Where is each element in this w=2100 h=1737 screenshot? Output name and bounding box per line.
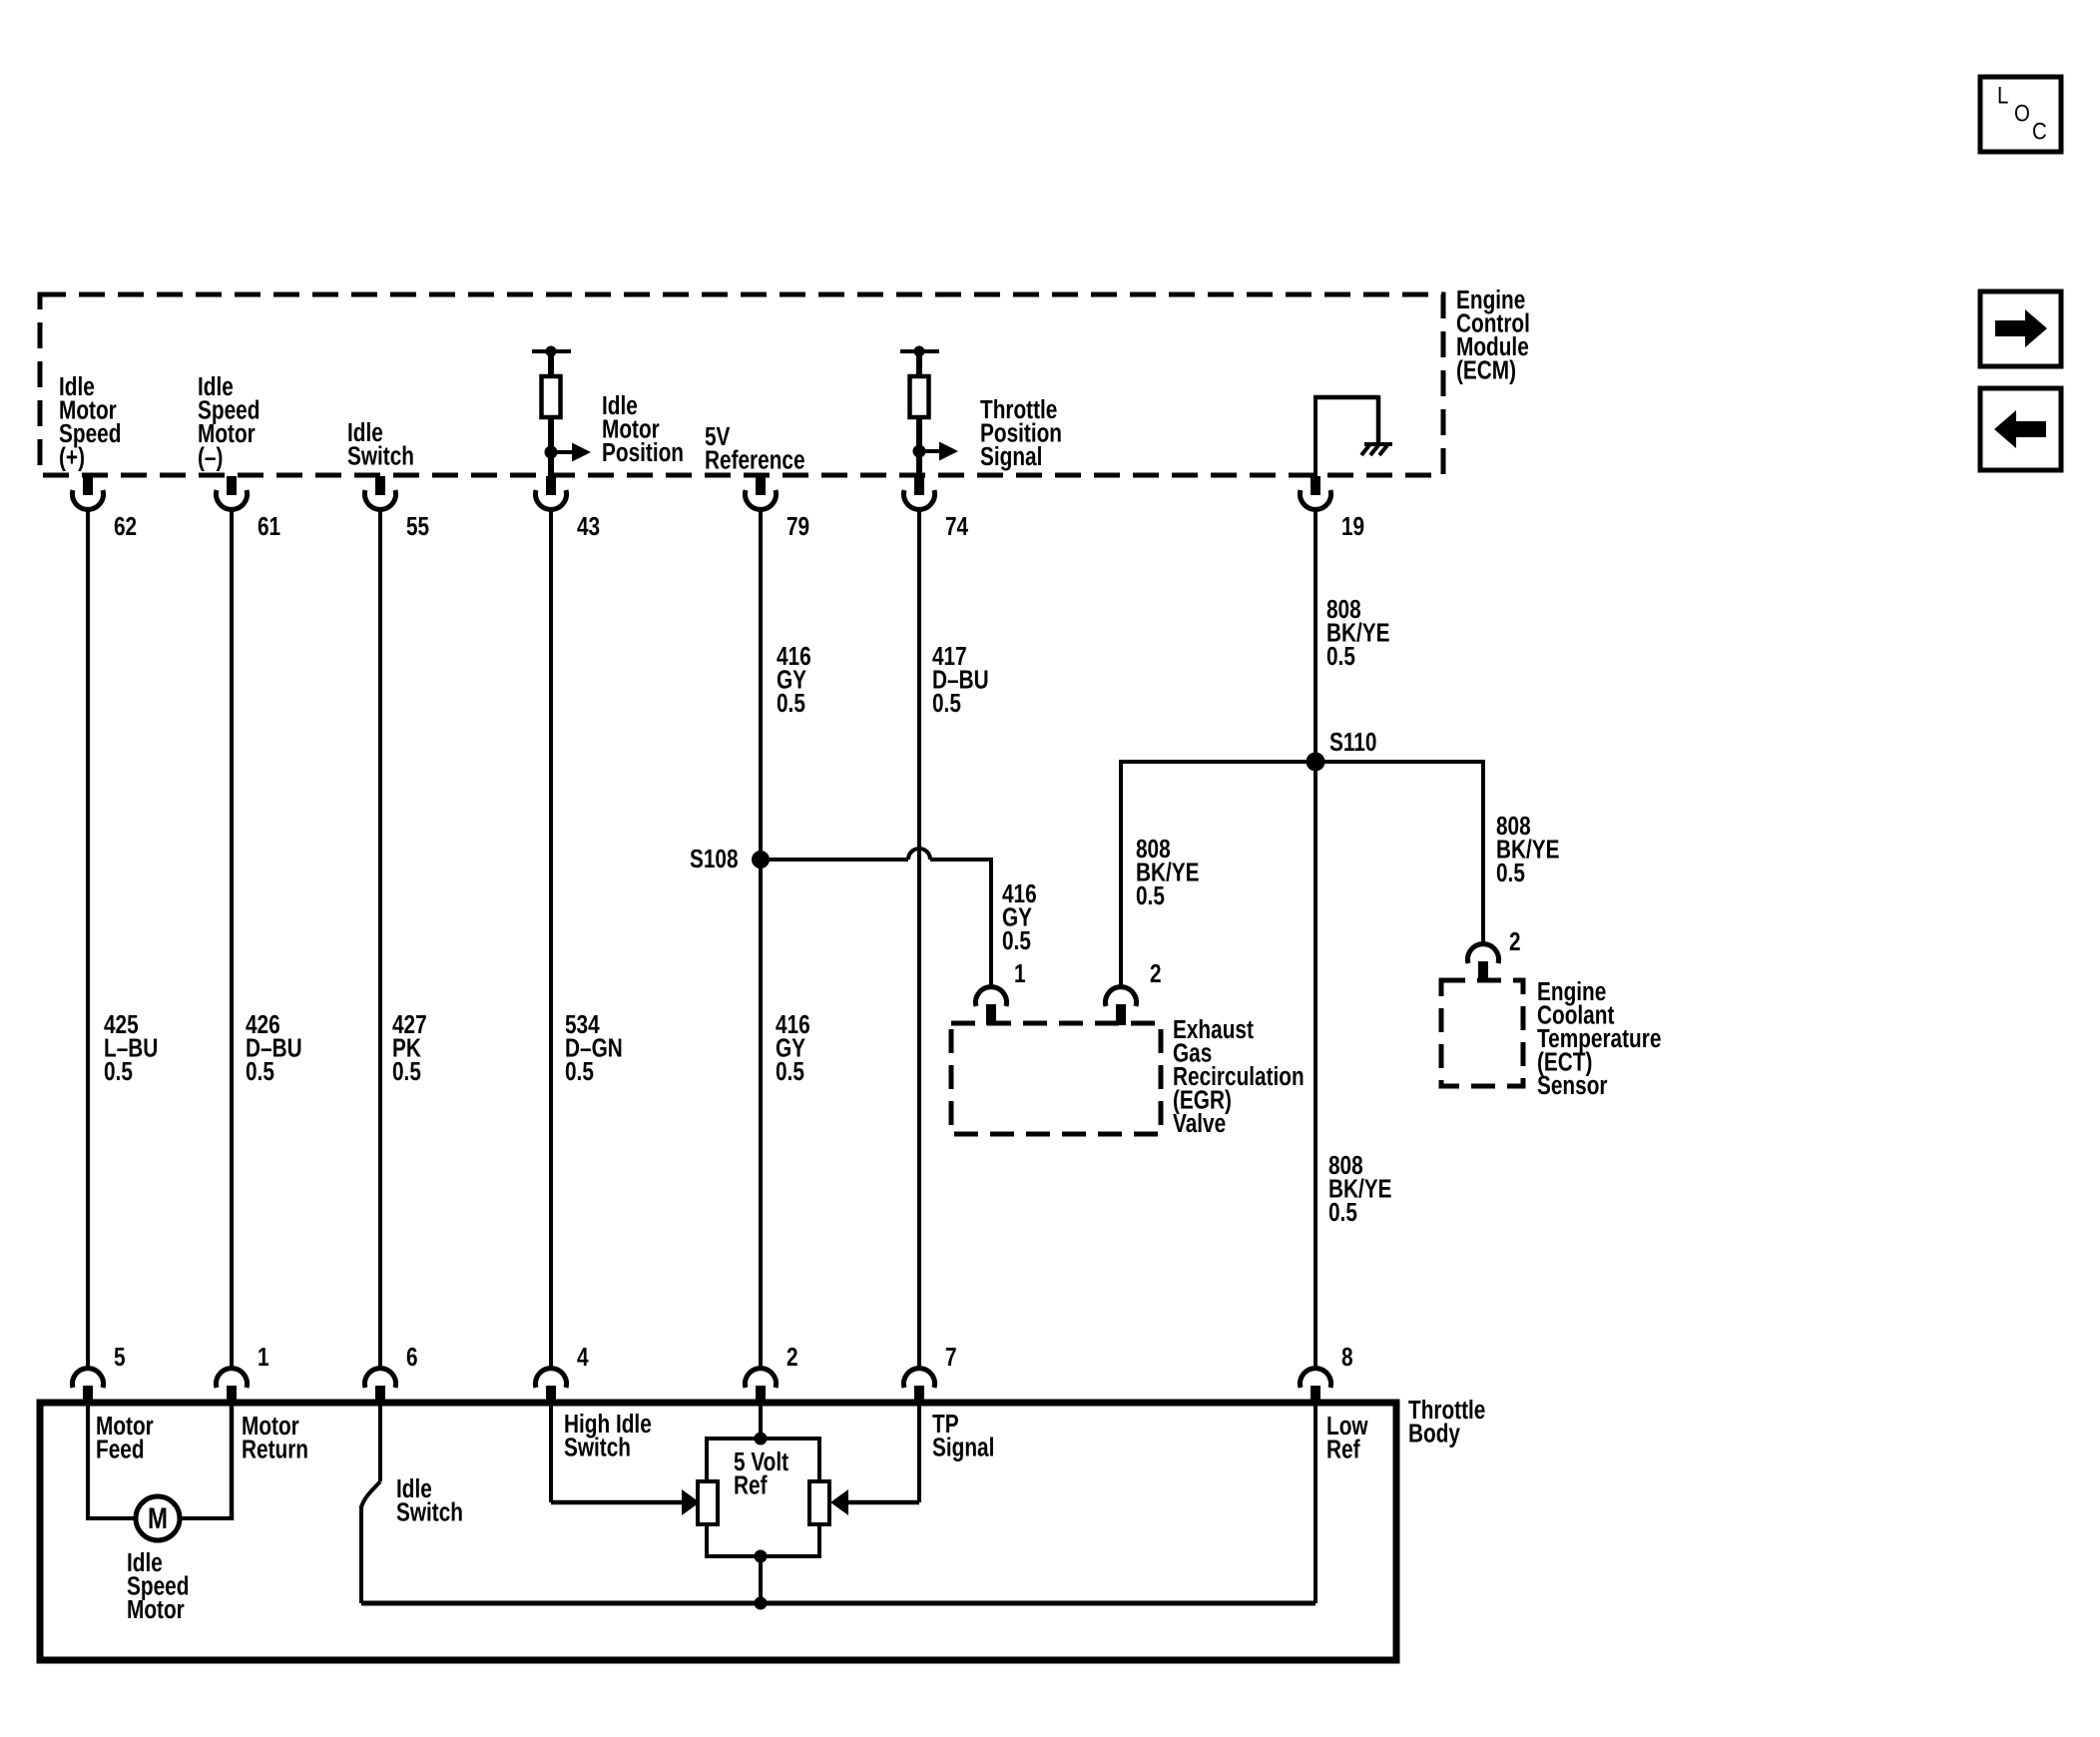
- wire S108 branch continues: [930, 858, 989, 862]
- svg-text:1: 1: [1014, 959, 1026, 988]
- EGR valve connector pin 2: [1106, 987, 1137, 1006]
- throttle body connector pin 1 (Motor Return): [216, 1369, 247, 1388]
- throttle body connector pin 6 (Idle Switch): [365, 1369, 396, 1388]
- svg-text:0.5: 0.5: [1326, 642, 1355, 671]
- left-arrow nav box: [1980, 388, 2061, 470]
- svg-text:Ref: Ref: [734, 1470, 768, 1499]
- TP signal wiper feed: [847, 1500, 919, 1505]
- ECM dashed box: [40, 294, 1443, 475]
- svg-text:(–): (–): [198, 442, 223, 471]
- svg-text:C: C: [2032, 118, 2047, 145]
- EGR valve connector pin 1: [976, 987, 1007, 1006]
- svg-text:0.5: 0.5: [1136, 881, 1165, 910]
- svg-text:0.5: 0.5: [246, 1057, 274, 1086]
- svg-text:0.5: 0.5: [565, 1057, 594, 1086]
- svg-text:43: 43: [577, 512, 600, 541]
- svg-text:Motor: Motor: [127, 1595, 185, 1624]
- svg-text:5: 5: [114, 1343, 126, 1372]
- ECM connector pin 43 (Idle Motor Position): [546, 476, 556, 495]
- junction top of 5 Volt Ref: [755, 1433, 768, 1446]
- wire pin 2 into 5 Volt Ref: [759, 1406, 763, 1439]
- wire pin 4 (High Idle Switch): [549, 1406, 553, 1502]
- svg-text:1: 1: [258, 1343, 269, 1372]
- svg-text:2: 2: [1509, 927, 1521, 956]
- internal pull-up resistor (Throttle Position Signal): [900, 349, 939, 353]
- svg-text:55: 55: [406, 512, 429, 541]
- ECM connector pin 55 (Idle Switch): [375, 476, 385, 495]
- wire 426 D-BU (pin 61 to Motor Return pin 1): [230, 507, 234, 1370]
- svg-text:Ref: Ref: [1326, 1435, 1360, 1463]
- wire 808 BK/YE drop to EGR pin 2: [1119, 760, 1123, 988]
- ECT sensor connector pin 2: [1468, 944, 1499, 963]
- internal pull-up resistor (Idle Motor Position): [532, 349, 571, 353]
- svg-text:M: M: [148, 1500, 168, 1534]
- low ref rail: [361, 1601, 1315, 1606]
- EGR valve dashed box: [951, 1023, 1161, 1134]
- throttle body connector pin 7 (TP Signal): [904, 1369, 935, 1388]
- ECM connector pin 19 (Low Reference): [1311, 476, 1320, 495]
- splice S108: [752, 851, 770, 868]
- svg-text:Signal: Signal: [980, 442, 1042, 471]
- wire pin 6 stub: [378, 1406, 382, 1481]
- svg-text:Return: Return: [242, 1435, 308, 1463]
- svg-text:0.5: 0.5: [776, 1057, 804, 1086]
- wire 534 D-GN (pin 43 to High Idle Switch pin 4): [549, 507, 553, 1370]
- wire motor to pin 1: [178, 1516, 232, 1520]
- junction to signal arrow: [913, 445, 926, 458]
- junction bottom of 5 Volt Ref: [755, 1550, 768, 1563]
- svg-text:Body: Body: [1408, 1419, 1460, 1447]
- ECM connector pin 61 (Idle Speed Motor -): [227, 476, 237, 495]
- svg-text:4: 4: [577, 1343, 589, 1372]
- wire hop over wire 417: [908, 849, 930, 860]
- svg-text:62: 62: [114, 512, 137, 541]
- ECM connector pin 79 (5V Reference): [756, 476, 766, 495]
- svg-text:Valve: Valve: [1173, 1109, 1226, 1138]
- arrow into 5 Volt Ref potentiometer (right wiper): [830, 1489, 848, 1515]
- resistor element right: [809, 1481, 829, 1524]
- wire 427 PK (pin 55 to Idle Switch pin 6): [378, 507, 382, 1370]
- wire to motor: [88, 1516, 138, 1520]
- wire 5 Volt Ref to low ref rail: [759, 1556, 763, 1603]
- wire S110 left branch: [1121, 760, 1315, 764]
- splice S110: [1307, 753, 1325, 772]
- svg-text:O: O: [2014, 100, 2030, 127]
- wire S110 right branch: [1315, 760, 1483, 764]
- wire 416 GY drop to EGR pin 1: [989, 858, 993, 988]
- ECM connector pin 74 (Throttle Position Signal): [914, 476, 924, 495]
- wire pin 8 (Low Ref): [1313, 1406, 1317, 1603]
- wire pin 1 (Motor Return): [230, 1406, 235, 1520]
- wire 416 GY (pin 79 to 5 Volt Ref pin 2): [759, 507, 763, 1370]
- wire 808 BK/YE drop to ECT sensor pin 2: [1481, 760, 1485, 945]
- throttle body connector pin 4 (High Idle Switch): [536, 1369, 567, 1388]
- svg-text:7: 7: [945, 1343, 957, 1372]
- wire 417 D-BU (pin 74 to TP Signal pin 7): [917, 507, 921, 1370]
- throttle body connector pin 8 (Low Ref): [1301, 1369, 1331, 1388]
- svg-text:(ECM): (ECM): [1456, 355, 1516, 384]
- svg-text:0.5: 0.5: [392, 1057, 421, 1086]
- svg-text:Reference: Reference: [705, 445, 805, 474]
- svg-text:0.5: 0.5: [104, 1057, 133, 1086]
- svg-text:S108: S108: [690, 845, 739, 873]
- wire pin 5 to idle speed motor: [86, 1406, 90, 1520]
- svg-text:74: 74: [945, 512, 968, 541]
- svg-text:19: 19: [1341, 512, 1364, 541]
- wire 808 BK/YE (pin 19 to Low Ref pin 8): [1313, 507, 1317, 1370]
- signal arrow (Throttle Position Signal): [919, 449, 940, 453]
- svg-text:(+): (+): [59, 442, 85, 471]
- svg-text:S110: S110: [1329, 728, 1376, 757]
- svg-text:L: L: [1997, 82, 2008, 109]
- junction to signal arrow: [545, 446, 558, 459]
- LOC legend box: [1980, 77, 2061, 152]
- wire 425 L-BU (pin 62 to Motor Feed pin 5): [86, 507, 90, 1370]
- svg-text:Switch: Switch: [396, 1497, 463, 1526]
- svg-text:Switch: Switch: [347, 441, 414, 470]
- svg-text:8: 8: [1341, 1343, 1353, 1372]
- svg-text:2: 2: [787, 1343, 798, 1372]
- chassis ground symbol: [1364, 442, 1392, 446]
- junction on low ref rail: [755, 1597, 768, 1610]
- svg-text:0.5: 0.5: [932, 689, 961, 718]
- signal arrow (Idle Motor Position): [551, 450, 573, 454]
- arrow into 5 Volt Ref potentiometer (left wiper): [682, 1489, 700, 1515]
- right-arrow nav box: [1980, 291, 2061, 366]
- internal ground wire from pin 19: [1313, 397, 1317, 476]
- svg-text:Sensor: Sensor: [1537, 1071, 1607, 1100]
- svg-text:Feed: Feed: [96, 1435, 145, 1463]
- ECM connector pin 62 (Idle Motor Speed +): [83, 476, 93, 495]
- resistor element left: [698, 1481, 718, 1524]
- idle speed motor M1: [136, 1496, 180, 1540]
- junction at supply bar: [914, 346, 925, 357]
- svg-text:0.5: 0.5: [1496, 859, 1525, 887]
- svg-text:61: 61: [258, 512, 280, 541]
- svg-text:79: 79: [787, 512, 809, 541]
- ECT sensor dashed box: [1441, 980, 1523, 1086]
- svg-text:Position: Position: [602, 438, 684, 467]
- svg-text:0.5: 0.5: [1328, 1198, 1357, 1227]
- svg-text:6: 6: [406, 1343, 418, 1372]
- throttle body solid box: [40, 1403, 1396, 1660]
- junction at supply bar: [546, 346, 557, 357]
- wire pin 7 (TP Signal): [917, 1406, 921, 1502]
- svg-text:2: 2: [1150, 959, 1162, 988]
- throttle body connector pin 2 (5 Volt Ref): [746, 1369, 777, 1388]
- throttle body connector pin 5 (Motor Feed): [72, 1369, 103, 1388]
- svg-text:Switch: Switch: [564, 1433, 631, 1461]
- high idle switch feed to potentiometer: [551, 1500, 683, 1505]
- svg-text:0.5: 0.5: [777, 689, 805, 718]
- wire S108 branch to EGR pin 1: [761, 858, 908, 862]
- svg-text:Signal: Signal: [932, 1433, 994, 1461]
- idle switch to low ref rail: [359, 1505, 363, 1603]
- svg-text:0.5: 0.5: [1002, 926, 1031, 955]
